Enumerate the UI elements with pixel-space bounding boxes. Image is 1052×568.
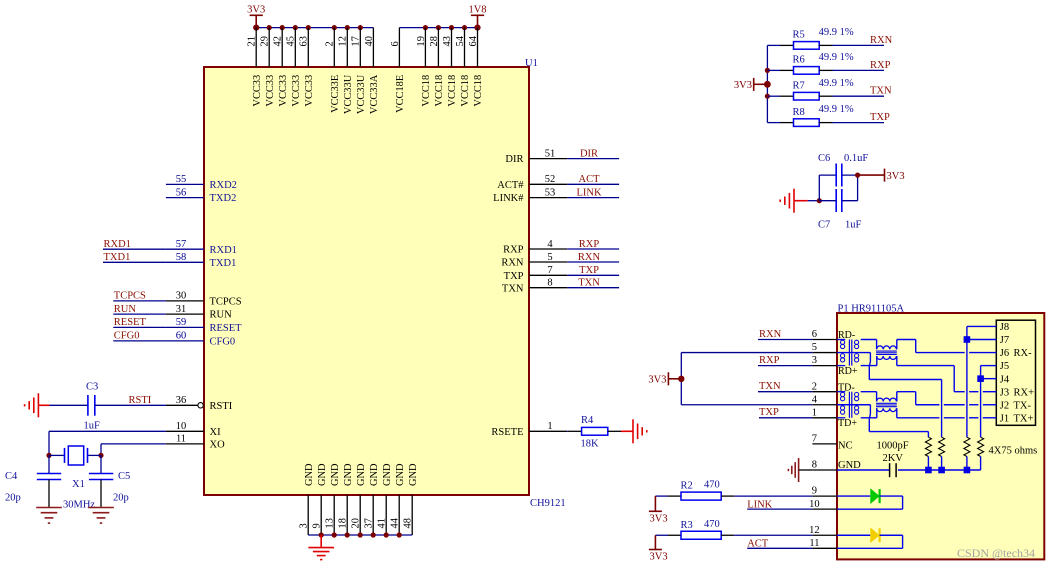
- pin 45 (VCC33): [286, 28, 302, 107]
- svg-text:VCC33: VCC33: [252, 75, 263, 107]
- svg-text:RUN: RUN: [210, 310, 233, 321]
- pin name RD-: [838, 330, 855, 341]
- resistor 75 ohm #2 (in P1): [939, 437, 945, 470]
- pin 6 of P1: [812, 329, 837, 340]
- wire GND bus below IC: [308, 534, 412, 536]
- svg-text:TXP: TXP: [504, 271, 524, 282]
- svg-text:13: 13: [325, 518, 336, 528]
- svg-text:30MHz: 30MHz: [63, 500, 95, 511]
- svg-text:RXP: RXP: [870, 60, 891, 71]
- svg-text:RSTI: RSTI: [210, 401, 233, 412]
- svg-text:R4: R4: [581, 415, 594, 426]
- resistor R5 49.9 1%: [767, 27, 853, 49]
- svg-text:49.9 1%: 49.9 1%: [819, 104, 854, 115]
- power symbol 3V3 (R5-R8): [734, 78, 767, 91]
- svg-text:RX-: RX-: [1014, 348, 1033, 359]
- pin 10 of P1: [809, 499, 837, 510]
- svg-text:31: 31: [176, 304, 187, 315]
- svg-text:VCC33: VCC33: [278, 75, 289, 107]
- svg-text:37: 37: [364, 518, 375, 528]
- svg-text:GND: GND: [838, 460, 861, 471]
- svg-text:11: 11: [176, 434, 186, 445]
- wire RX transformer to J6 RX-: [897, 340, 997, 353]
- svg-text:VCC33A: VCC33A: [369, 74, 380, 114]
- RX isolation transformer (in P1): [876, 346, 897, 360]
- svg-text:18: 18: [338, 518, 349, 528]
- pin 4 of P1: [812, 394, 837, 405]
- net label RESET: [114, 317, 147, 328]
- pin 20 (GND): [351, 463, 367, 535]
- IC U1 CH9121 body: [204, 67, 529, 495]
- pin 1 (RSETE): [491, 421, 567, 438]
- pin 55 (RXD2): [166, 174, 237, 191]
- connector P1 HR911105A body: [837, 313, 1044, 559]
- svg-text:XO: XO: [210, 440, 226, 451]
- svg-text:TXN: TXN: [578, 278, 600, 289]
- svg-text:470: 470: [704, 519, 720, 530]
- wire net TXN to pin 2: [758, 391, 812, 393]
- net label TXD1: [104, 252, 131, 263]
- svg-text:GND: GND: [330, 463, 341, 486]
- pin 36 (RSTI): [166, 395, 233, 412]
- svg-text:20p: 20p: [5, 493, 21, 504]
- svg-text:GND: GND: [382, 463, 393, 486]
- svg-text:GND: GND: [408, 463, 419, 486]
- wire RX transformer to J3 RX+: [897, 356, 997, 392]
- wire to pin 58: [103, 261, 166, 263]
- pin name TD+: [838, 418, 857, 429]
- svg-text:RXD1: RXD1: [210, 245, 237, 256]
- svg-text:53: 53: [545, 187, 556, 198]
- svg-text:RXN: RXN: [578, 252, 601, 263]
- svg-text:VCC18: VCC18: [421, 75, 432, 107]
- svg-text:RXN: RXN: [759, 329, 782, 340]
- pin 5 (RXN): [501, 252, 567, 269]
- net label RUN: [114, 304, 137, 315]
- svg-text:VCC33U: VCC33U: [356, 74, 367, 114]
- svg-text:P1 HR911105A: P1 HR911105A: [838, 303, 905, 314]
- net label RXD1: [104, 239, 131, 250]
- svg-text:CSDN @tech34: CSDN @tech34: [957, 546, 1035, 560]
- svg-text:20p: 20p: [113, 493, 129, 504]
- pin 53 (LINK#): [493, 187, 567, 204]
- pin 56 (TXD2): [166, 187, 236, 204]
- svg-text:1uF: 1uF: [84, 421, 101, 432]
- net label RXN (P1): [759, 329, 782, 340]
- wire net TXP to pin 1: [759, 417, 812, 419]
- svg-text:TCPCS: TCPCS: [114, 291, 146, 302]
- pin 3 of P1: [812, 355, 837, 366]
- pin name TD-: [838, 382, 855, 393]
- pin 2 of P1: [812, 381, 837, 392]
- svg-text:54: 54: [455, 35, 466, 46]
- junction square at J7: [964, 336, 971, 343]
- resistor 75 ohm #3 (in P1): [964, 437, 970, 470]
- designator U1: [525, 58, 538, 69]
- net label RXP (P1): [759, 355, 780, 366]
- LED green (LINK) in P1: [837, 488, 903, 509]
- net label LINK: [747, 499, 772, 510]
- svg-text:R7: R7: [793, 80, 805, 91]
- wire ground to C6/C7 loop: [808, 200, 820, 202]
- pin 8 (TXN): [502, 278, 567, 295]
- wire R2 to pin 9: [734, 495, 812, 497]
- svg-text:R3: R3: [681, 520, 693, 531]
- pin 17 (VCC33U): [351, 28, 367, 114]
- svg-text:30: 30: [176, 291, 187, 302]
- svg-text:VCC33: VCC33: [291, 75, 302, 107]
- ground symbol below IC: [308, 535, 334, 560]
- svg-text:VCC18: VCC18: [473, 75, 484, 107]
- wire ground to C3: [50, 404, 88, 406]
- svg-text:TX+: TX+: [1014, 413, 1034, 424]
- svg-text:8: 8: [547, 278, 552, 289]
- svg-text:TXN: TXN: [502, 283, 524, 294]
- capacitor 1000pF 2KV (in P1): [837, 441, 909, 478]
- pin 3 (GND): [299, 463, 315, 535]
- svg-text:J5: J5: [1000, 361, 1009, 372]
- TX common-mode choke (in P1): [837, 392, 859, 418]
- svg-text:57: 57: [176, 239, 187, 250]
- svg-text:3V3: 3V3: [650, 552, 668, 563]
- resistor R8 49.9 1%: [767, 104, 853, 126]
- svg-text:ACT#: ACT#: [497, 180, 524, 191]
- pin 48 (GND): [403, 463, 419, 535]
- pin 40 (VCC33A): [364, 28, 380, 114]
- svg-text:2: 2: [325, 41, 336, 46]
- wire net LINK to pin 10: [747, 508, 812, 510]
- svg-text:VCC18: VCC18: [434, 75, 445, 107]
- svg-text:3V3: 3V3: [650, 514, 668, 525]
- net label RXP: [579, 239, 600, 250]
- svg-text:GND: GND: [304, 463, 315, 486]
- svg-text:TX-: TX-: [1014, 400, 1032, 411]
- svg-text:29: 29: [260, 36, 271, 46]
- svg-text:17: 17: [351, 36, 362, 46]
- svg-text:U1: U1: [525, 58, 538, 69]
- pin name NC: [838, 441, 853, 452]
- svg-text:RXN: RXN: [870, 35, 893, 46]
- pin 29 (VCC33): [260, 28, 276, 107]
- pin 44 (GND): [390, 463, 406, 535]
- svg-text:C3: C3: [86, 381, 98, 392]
- svg-text:R5: R5: [793, 30, 805, 41]
- ground for C4: [36, 508, 62, 524]
- svg-text:TXD1: TXD1: [210, 258, 237, 269]
- svg-text:VCC18: VCC18: [447, 75, 458, 107]
- svg-text:49.9 1%: 49.9 1%: [819, 78, 854, 89]
- pin 60 (CFG0): [166, 331, 235, 348]
- net label TXP: [870, 112, 890, 123]
- wire net LINK: [567, 197, 619, 199]
- svg-text:9: 9: [312, 523, 323, 528]
- svg-text:3V3: 3V3: [734, 80, 752, 91]
- wire to pin 59: [113, 326, 166, 328]
- part name CH9121: [530, 498, 566, 509]
- net label CFG0: [114, 331, 140, 342]
- svg-text:RSETE: RSETE: [491, 427, 523, 438]
- node crystal right junction: [98, 453, 103, 458]
- pin 51 (DIR): [505, 148, 567, 165]
- wire J5/J4 pair to 75-ohm resistor: [981, 366, 997, 438]
- svg-text:49.9 1%: 49.9 1%: [819, 27, 854, 38]
- net label TXP: [579, 265, 599, 276]
- pin 4 (RXP): [503, 239, 567, 256]
- resistor 75 ohm #1 (in P1): [925, 437, 931, 470]
- pin 1 of P1: [812, 407, 837, 418]
- junction squares on termination bus: [925, 467, 970, 474]
- pin name RD+: [838, 366, 858, 377]
- resistor R7 49.9 1%: [767, 78, 853, 100]
- svg-text:TXN: TXN: [759, 381, 781, 392]
- wire net RXN: [833, 44, 885, 46]
- svg-text:TXD2: TXD2: [210, 193, 237, 204]
- svg-text:64: 64: [468, 35, 479, 46]
- svg-text:6: 6: [812, 329, 817, 340]
- ground for C6/C7: [780, 189, 808, 213]
- wire TX transformer to J1 TX+: [897, 408, 997, 418]
- net label LINK: [576, 187, 601, 198]
- svg-text:11: 11: [809, 538, 819, 549]
- wire RX choke to transformer (RD- path): [861, 340, 877, 350]
- svg-text:J2: J2: [1000, 400, 1009, 411]
- svg-text:60: 60: [176, 331, 187, 342]
- svg-text:C6: C6: [818, 153, 830, 164]
- svg-text:NC: NC: [838, 441, 853, 452]
- svg-text:1V8: 1V8: [468, 5, 486, 16]
- wire XI to crystal: [49, 431, 166, 455]
- wire TX choke to transformer (TD- path): [861, 392, 877, 402]
- svg-text:RESET: RESET: [210, 323, 243, 334]
- svg-text:5: 5: [547, 252, 552, 263]
- svg-text:58: 58: [176, 252, 187, 263]
- svg-text:ACT: ACT: [579, 174, 601, 185]
- wire R3 to pin 12: [734, 534, 812, 536]
- svg-text:1000pF: 1000pF: [877, 441, 909, 452]
- node C6 right junction: [855, 173, 860, 178]
- wire RSETE to R4: [566, 430, 569, 432]
- ground for C3: [25, 393, 50, 417]
- svg-text:52: 52: [545, 174, 556, 185]
- svg-text:GND: GND: [343, 463, 354, 486]
- svg-text:XI: XI: [210, 427, 222, 438]
- pin 2 (VCC33E): [325, 28, 341, 113]
- net label TCPCS: [114, 291, 146, 302]
- junction dots on R5-R8 bus: [764, 68, 771, 99]
- svg-text:LINK: LINK: [747, 499, 772, 510]
- power symbol 1V8 (top right): [468, 5, 486, 28]
- pin 54 (VCC18): [455, 28, 471, 107]
- svg-text:63: 63: [299, 36, 310, 46]
- svg-text:VCC33E: VCC33E: [330, 75, 341, 113]
- svg-text:VCC18E: VCC18E: [395, 75, 406, 113]
- svg-text:RD+: RD+: [838, 366, 858, 377]
- wire net TXN: [833, 95, 885, 97]
- pin 7 of P1: [812, 434, 837, 445]
- jack contact J7: [1000, 335, 1009, 346]
- svg-text:DIR: DIR: [580, 148, 598, 159]
- svg-text:51: 51: [545, 148, 556, 159]
- svg-text:RXD2: RXD2: [210, 180, 237, 191]
- svg-text:CFG0: CFG0: [114, 331, 140, 342]
- pin 13 (GND): [325, 463, 341, 535]
- watermark CSDN @tech34: [957, 546, 1035, 560]
- value label 4X75 ohms: [989, 446, 1038, 457]
- svg-text:X1: X1: [72, 479, 85, 490]
- svg-text:J7: J7: [1000, 335, 1009, 346]
- pin 12 of P1: [809, 525, 837, 536]
- ground for R4: [621, 419, 647, 443]
- pin 11 of P1: [809, 538, 837, 549]
- resistor 75 ohm #4 (in P1): [978, 437, 984, 470]
- jack contact J4: [1000, 374, 1010, 385]
- net label TXN (P1): [759, 381, 781, 392]
- svg-text:J3: J3: [1000, 387, 1009, 398]
- wire net RXN: [567, 261, 619, 263]
- svg-text:R6: R6: [793, 55, 805, 66]
- wire XO to crystal: [101, 444, 166, 456]
- node crystal left junction: [46, 453, 51, 458]
- svg-text:C5: C5: [118, 471, 130, 482]
- pin 9 (GND): [312, 463, 328, 535]
- net label RXP: [870, 60, 891, 71]
- wire net ACT to pin 11: [747, 547, 812, 549]
- svg-text:20: 20: [351, 518, 362, 528]
- svg-text:2KV: 2KV: [883, 453, 904, 464]
- ground for C5: [88, 508, 114, 524]
- svg-text:4: 4: [812, 394, 818, 405]
- pin name GND: [838, 460, 861, 471]
- power symbol 3V3 (P1 center taps): [648, 372, 681, 385]
- jack contact J5: [1000, 361, 1009, 372]
- pin 30 (TCPCS): [166, 291, 242, 308]
- svg-text:TXD1: TXD1: [104, 252, 131, 263]
- svg-text:48: 48: [403, 518, 414, 528]
- pin 7 (TXP): [504, 265, 568, 282]
- LED yellow (ACT) in P1: [837, 527, 903, 548]
- svg-text:TXP: TXP: [759, 407, 779, 418]
- pin 5 of P1: [812, 342, 837, 353]
- junction dots on GND bus: [319, 532, 402, 537]
- capacitor C6: [818, 153, 868, 201]
- junction dot on center-tap loop: [678, 376, 684, 382]
- pin 12 (VCC33U): [338, 28, 354, 114]
- svg-text:RXN: RXN: [501, 258, 524, 269]
- svg-text:55: 55: [176, 174, 187, 185]
- wire net DIR: [567, 158, 619, 160]
- capacitor C3: [84, 381, 101, 431]
- svg-text:36: 36: [176, 395, 187, 406]
- svg-text:RX+: RX+: [1014, 387, 1035, 398]
- svg-text:18K: 18K: [581, 439, 600, 450]
- wire net ACT: [567, 183, 619, 185]
- svg-text:LINK: LINK: [576, 187, 601, 198]
- wire TX transformer to J2 TX-: [897, 392, 997, 405]
- svg-text:LINK#: LINK#: [493, 193, 524, 204]
- svg-text:J8: J8: [1000, 322, 1009, 333]
- pin 43 (VCC18): [442, 28, 458, 107]
- svg-text:8: 8: [812, 460, 817, 471]
- svg-text:3V3: 3V3: [648, 375, 666, 386]
- wire to pin 31: [113, 313, 166, 315]
- svg-text:4: 4: [547, 239, 553, 250]
- svg-text:RXP: RXP: [503, 245, 524, 256]
- power symbol 3V3 (R2): [649, 496, 668, 524]
- svg-text:VCC18: VCC18: [460, 75, 471, 107]
- svg-text:0.1uF: 0.1uF: [844, 153, 868, 164]
- svg-text:3: 3: [299, 523, 310, 528]
- capacitor C5: [89, 455, 130, 507]
- svg-text:9: 9: [812, 486, 817, 497]
- svg-text:RSTI: RSTI: [129, 395, 152, 406]
- svg-text:RUN: RUN: [114, 304, 137, 315]
- pin 9 of P1: [812, 486, 837, 497]
- svg-text:3V3: 3V3: [887, 171, 905, 182]
- RX common-mode choke (in P1): [837, 340, 859, 366]
- svg-text:VCC33: VCC33: [265, 75, 276, 107]
- pin 18 (GND): [338, 463, 354, 535]
- pin 11 (XO): [166, 434, 225, 451]
- jack contact J3 RX+: [1000, 387, 1034, 398]
- TX isolation transformer (in P1): [876, 398, 897, 412]
- wire net RXP: [833, 69, 885, 71]
- net label RSTI: [129, 395, 152, 406]
- wire TX center tap (pin 4) to 75-ohm resistor: [837, 405, 928, 437]
- pin 57 (RXD1): [166, 239, 237, 256]
- ground for P1 pin 8: [788, 458, 812, 482]
- net label RXN: [870, 35, 893, 46]
- pin 64 (VCC18): [468, 28, 484, 107]
- wire net TXP: [567, 274, 619, 276]
- svg-text:1: 1: [547, 421, 552, 432]
- svg-text:19: 19: [416, 36, 427, 46]
- svg-text:45: 45: [286, 36, 297, 46]
- svg-text:RXD1: RXD1: [104, 239, 131, 250]
- pin 6 (VCC18E): [390, 28, 406, 113]
- pin 37 (GND): [364, 463, 380, 535]
- wire TX choke to transformer (TD+ path): [861, 408, 877, 418]
- pin 52 (ACT#): [497, 174, 567, 191]
- svg-text:R8: R8: [793, 107, 805, 118]
- svg-text:3V3: 3V3: [247, 5, 265, 16]
- svg-text:TCPCS: TCPCS: [210, 297, 242, 308]
- svg-text:43: 43: [442, 36, 453, 46]
- net label TXN: [578, 278, 600, 289]
- wire 3V3 center-tap loop (pins 5 and 4): [681, 353, 812, 405]
- capacitor C7: [818, 175, 862, 230]
- power symbol 3V3 (C6/C7): [858, 169, 905, 182]
- pin 58 (TXD1): [166, 252, 236, 269]
- net label TXP (P1): [759, 407, 779, 418]
- svg-text:TD+: TD+: [838, 418, 857, 429]
- wire RX choke to transformer (RD+ path): [861, 356, 877, 366]
- pin 10 (XI): [166, 421, 221, 438]
- svg-text:GND: GND: [395, 463, 406, 486]
- wire to pin 60: [113, 340, 166, 342]
- svg-text:7: 7: [547, 265, 552, 276]
- svg-text:10: 10: [809, 499, 820, 510]
- svg-text:DIR: DIR: [505, 154, 523, 165]
- net label TXN: [870, 86, 892, 97]
- svg-text:5: 5: [812, 342, 817, 353]
- svg-text:1: 1: [812, 407, 817, 418]
- svg-text:3: 3: [812, 355, 817, 366]
- jack contact J6 RX-: [1000, 348, 1032, 359]
- net label RXN: [578, 252, 601, 263]
- svg-text:40: 40: [364, 36, 375, 46]
- svg-text:1uF: 1uF: [845, 220, 862, 231]
- wire 3V3 top bus: [256, 27, 373, 29]
